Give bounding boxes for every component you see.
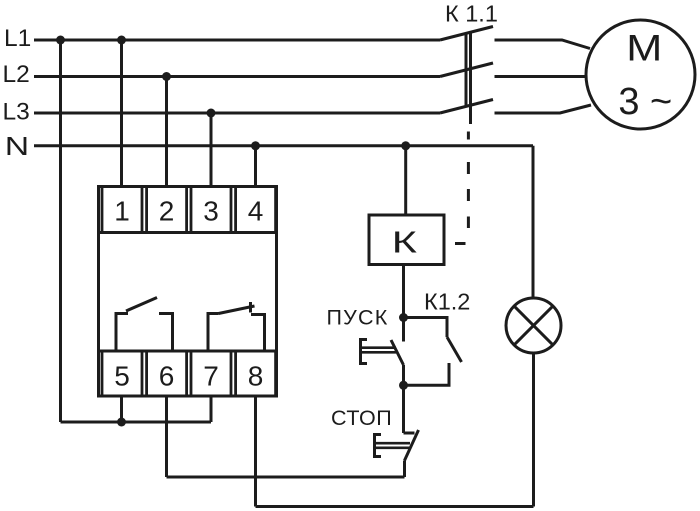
svg-text:5: 5 <box>114 361 130 392</box>
svg-text:М: М <box>626 28 662 69</box>
svg-text:3 ~: 3 ~ <box>618 81 672 123</box>
svg-text:6: 6 <box>159 361 175 392</box>
svg-text:1: 1 <box>114 196 130 227</box>
svg-text:3: 3 <box>203 196 219 227</box>
svg-text:СТОП: СТОП <box>331 406 392 430</box>
svg-text:К: К <box>392 225 417 260</box>
svg-text:8: 8 <box>248 361 264 392</box>
svg-text:4: 4 <box>248 196 264 227</box>
svg-text:L1: L1 <box>4 25 31 52</box>
svg-text:L2: L2 <box>3 61 30 88</box>
svg-text:7: 7 <box>203 361 219 392</box>
svg-text:К 1.1: К 1.1 <box>445 1 498 27</box>
svg-text:К1.2: К1.2 <box>424 289 470 315</box>
svg-text:N: N <box>5 133 29 161</box>
svg-text:ПУСК: ПУСК <box>327 306 389 330</box>
svg-text:2: 2 <box>159 196 175 227</box>
svg-text:L3: L3 <box>3 99 30 126</box>
